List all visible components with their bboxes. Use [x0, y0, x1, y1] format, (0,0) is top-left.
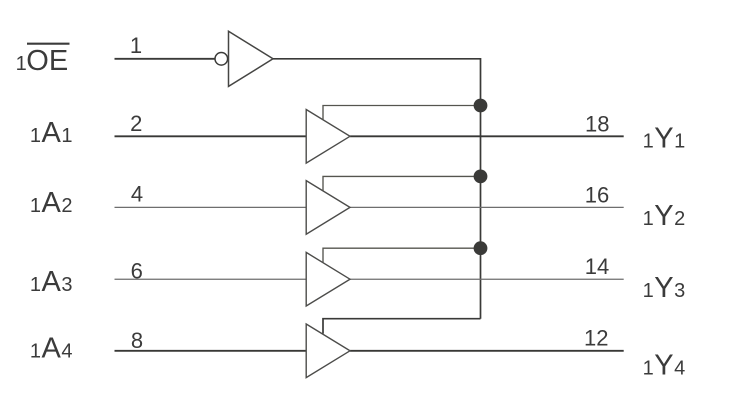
wire OE output and vertical bus — [273, 59, 481, 319]
op-amp U1 inverter bubble — [215, 53, 228, 66]
junction dot at enable of U2 — [474, 99, 488, 113]
svg-text:1Y4: 1Y4 — [643, 350, 686, 382]
wire enable of U4 — [323, 248, 481, 263]
svg-text:1Y1: 1Y1 — [643, 123, 686, 155]
svg-text:1: 1 — [130, 33, 142, 58]
wire enable of U3 — [323, 176, 481, 191]
svg-text:16: 16 — [585, 182, 609, 207]
svg-text:2: 2 — [130, 111, 142, 136]
buffer U4 triangle (1A3) — [306, 252, 350, 306]
svg-text:1A3: 1A3 — [30, 266, 73, 298]
svg-text:1A4: 1A4 — [30, 333, 73, 365]
op-amp U1 inverter triangle — [229, 31, 274, 86]
wire 1Y1 output — [350, 135, 624, 137]
wire 1A3 input — [115, 278, 307, 280]
svg-text:1A2: 1A2 — [30, 187, 73, 219]
node 1OE label — [16, 44, 70, 77]
buffer U2 triangle (1A1) — [306, 110, 350, 164]
svg-text:1Y3: 1Y3 — [643, 272, 686, 304]
wire 1A4 input — [115, 350, 307, 352]
wire enable of U5 — [323, 319, 481, 334]
svg-text:1Y2: 1Y2 — [643, 200, 686, 232]
junction dot at enable of U4 — [474, 241, 488, 255]
svg-text:4: 4 — [131, 182, 143, 207]
svg-text:1A1: 1A1 — [30, 117, 73, 149]
wire 1OE input — [115, 58, 215, 60]
buffer U5 triangle (1A4) — [306, 324, 350, 378]
svg-text:1: 1 — [16, 53, 27, 75]
wire 1A1 input — [115, 135, 307, 137]
buffer U3 triangle (1A2) — [306, 181, 350, 235]
svg-text:8: 8 — [131, 328, 143, 353]
svg-text:18: 18 — [585, 111, 609, 136]
junction dot at enable of U3 — [474, 170, 488, 184]
svg-text:OE: OE — [26, 45, 68, 77]
wire enable of U2 — [323, 106, 481, 120]
svg-text:12: 12 — [584, 325, 608, 350]
wire 1A2 input — [115, 206, 307, 208]
wire 1Y2 output — [350, 206, 624, 208]
svg-text:14: 14 — [585, 254, 609, 279]
wire 1Y4 output — [350, 350, 624, 352]
wire 1Y3 output — [350, 278, 624, 280]
